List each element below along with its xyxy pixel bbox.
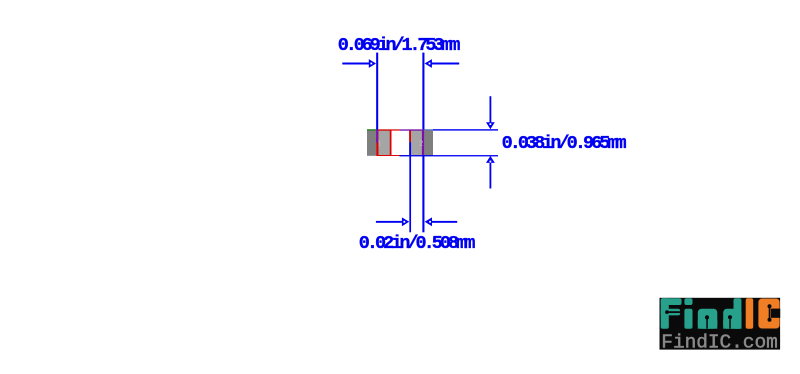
bottom dimension line left segment with arrow (376, 221, 402, 223)
extension line right: blue below component down to bottom dimension (422, 156, 424, 233)
component body (copper land, dark gray) (367, 129, 433, 155)
extension line left: purple where over pad edge (376, 130, 378, 143)
top dimension line right segment with arrow (431, 63, 459, 65)
pad 2 (right pad, light gray) (410, 130, 423, 155)
top reference line of 0.038in dimension (blue, to the right) (433, 129, 498, 130)
svg-text:0.02in/0.508mm: 0.02in/0.508mm (359, 233, 476, 254)
component bottom edge red segment (377, 154, 400, 157)
top reference line over dark gray (slate) (424, 129, 433, 130)
logo letter I (orange) (746, 298, 754, 328)
green assembly outline segment (top-left of body) (367, 129, 376, 130)
logo d circuit trace (728, 315, 732, 319)
right dimension vertical line upper segment with down arrow (490, 96, 492, 122)
svg-text:2: 2 (419, 141, 423, 149)
pad 1 (left pad, light gray with red outline) (378, 131, 389, 155)
logo C opening (black notch) (771, 309, 780, 318)
FindIC logo black background (660, 298, 781, 350)
pad 2 right edge (red under blue = purple) (422, 130, 424, 156)
svg-text:FindIC.com: FindIC.com (661, 332, 778, 354)
logo letter C (orange) (758, 299, 779, 329)
top dimension line left segment with arrow (342, 63, 369, 65)
svg-text:0.069in/1.753mm: 0.069in/1.753mm (338, 35, 461, 56)
pad 2 left edge (red, upper part) (409, 130, 411, 142)
extension line left: red pad edge below (377, 143, 379, 156)
logo letter n (teal) (698, 309, 718, 329)
svg-text:0.038in/0.965mm: 0.038in/0.965mm (502, 133, 627, 154)
logo letter d (teal) (723, 309, 741, 329)
right dimension vertical line lower segment with up arrow (486, 156, 495, 163)
component top edge red segment (378, 129, 400, 130)
component top edge purple segment (red+blue overlap) (400, 129, 422, 130)
logo n circuit trace (705, 315, 709, 319)
logo letter i (teal) (684, 298, 692, 328)
extension line middle (x=409.4): blue from pad middle down (409, 142, 411, 232)
extension line left (x=377): blue above pad (376, 53, 378, 130)
gap between pads (white) (391, 131, 409, 156)
logo C circuit trace (769, 306, 771, 320)
logo letter F (teal) (661, 298, 682, 328)
bottom reference line of 0.038in dimension (blue) (400, 155, 499, 156)
logo F circuit trace (black dot+line) (665, 310, 669, 314)
bottom dimension line right segment with arrow (432, 221, 457, 223)
extension line right (x=423): blue above component (422, 53, 424, 130)
